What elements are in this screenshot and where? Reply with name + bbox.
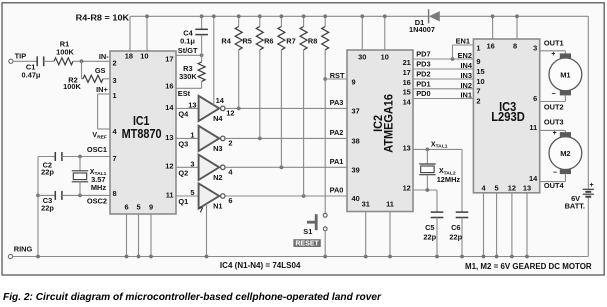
svg-text:10: 10 — [381, 52, 389, 61]
svg-text:5: 5 — [190, 188, 194, 197]
svg-text:22p: 22p — [423, 233, 436, 242]
svg-text:6: 6 — [228, 196, 232, 205]
svg-text:OSC2: OSC2 — [87, 196, 107, 205]
svg-text:IN+: IN+ — [96, 85, 108, 94]
svg-text:M2: M2 — [560, 149, 570, 158]
svg-text:PD1: PD1 — [416, 80, 430, 89]
svg-text:14: 14 — [165, 103, 174, 112]
svg-text:17: 17 — [165, 55, 173, 64]
svg-text:1: 1 — [476, 43, 480, 52]
svg-text:OUT4: OUT4 — [544, 181, 565, 190]
svg-text:39: 39 — [352, 165, 360, 174]
svg-text:14: 14 — [529, 174, 538, 183]
svg-text:C5: C5 — [425, 223, 434, 232]
svg-text:13: 13 — [165, 133, 173, 142]
svg-text:R8: R8 — [308, 37, 317, 46]
svg-text:N4: N4 — [213, 114, 223, 123]
svg-text:5: 5 — [495, 184, 499, 193]
svg-text:9: 9 — [476, 57, 480, 66]
svg-text:PD2: PD2 — [416, 70, 430, 79]
svg-text:PA1: PA1 — [330, 157, 344, 166]
svg-text:IN1: IN1 — [460, 91, 472, 100]
svg-text:18: 18 — [125, 52, 133, 61]
svg-text:14: 14 — [403, 97, 412, 106]
svg-text:2: 2 — [113, 58, 117, 67]
svg-text:+: + — [553, 130, 557, 137]
svg-text:R5: R5 — [242, 37, 251, 46]
svg-text:OUT1: OUT1 — [544, 39, 564, 48]
svg-text:RESET: RESET — [295, 239, 319, 248]
svg-text:6: 6 — [533, 94, 537, 103]
svg-text:12MHz: 12MHz — [437, 175, 461, 184]
svg-text:OUT2: OUT2 — [544, 102, 564, 111]
svg-text:0.1μ: 0.1μ — [180, 36, 195, 45]
svg-text:21: 21 — [403, 58, 411, 67]
svg-text:IC4 (N1-N4) = 74LS04: IC4 (N1-N4) = 74LS04 — [220, 261, 301, 270]
svg-text:15: 15 — [403, 88, 411, 97]
svg-text:11: 11 — [166, 190, 174, 199]
svg-text:ESt: ESt — [178, 89, 191, 98]
svg-text:R7: R7 — [286, 37, 295, 46]
svg-text:M1, M2 = 6V GEARED DC MOTOR: M1, M2 = 6V GEARED DC MOTOR — [465, 262, 592, 271]
svg-text:13: 13 — [523, 184, 531, 193]
svg-text:IN4: IN4 — [460, 61, 472, 70]
svg-text:1N4007: 1N4007 — [409, 25, 435, 34]
svg-text:100K: 100K — [63, 82, 81, 91]
svg-text:10: 10 — [140, 52, 148, 61]
svg-text:9: 9 — [352, 77, 356, 86]
svg-text:12: 12 — [165, 162, 173, 171]
svg-text:N2: N2 — [213, 173, 222, 182]
svg-text:S1: S1 — [303, 227, 312, 236]
svg-text:1: 1 — [190, 130, 194, 139]
svg-text:7: 7 — [476, 87, 480, 96]
svg-text:IN-: IN- — [99, 52, 109, 61]
svg-text:GS: GS — [95, 66, 106, 75]
svg-text:38: 38 — [352, 137, 360, 146]
svg-text:13: 13 — [403, 143, 411, 152]
svg-text:OSC1: OSC1 — [87, 145, 107, 154]
svg-text:Q1: Q1 — [178, 197, 188, 206]
svg-text:7: 7 — [199, 206, 203, 215]
svg-text:IN3: IN3 — [460, 71, 472, 80]
svg-text:R6: R6 — [264, 37, 273, 46]
svg-text:Q4: Q4 — [178, 110, 189, 119]
svg-text:8: 8 — [513, 42, 517, 51]
svg-text:IN2: IN2 — [460, 81, 472, 90]
svg-text:17: 17 — [403, 68, 411, 77]
svg-text:ATMEGA16: ATMEGA16 — [382, 94, 396, 153]
svg-text:0.47μ: 0.47μ — [22, 70, 41, 79]
svg-text:16: 16 — [403, 78, 411, 87]
svg-text:TIP: TIP — [15, 52, 27, 61]
svg-text:+: + — [590, 182, 594, 189]
svg-text:PD7: PD7 — [416, 50, 430, 59]
svg-text:16: 16 — [486, 42, 494, 51]
svg-text:2: 2 — [228, 139, 232, 148]
svg-text:8: 8 — [113, 189, 117, 198]
svg-text:5: 5 — [136, 203, 140, 212]
svg-text:C6: C6 — [451, 223, 460, 232]
svg-text:PA3: PA3 — [330, 98, 344, 107]
svg-text:−: − — [551, 91, 555, 98]
svg-text:11: 11 — [386, 199, 394, 208]
svg-text:PD0: PD0 — [416, 89, 430, 98]
svg-text:N1: N1 — [213, 202, 222, 211]
svg-text:+: + — [551, 51, 555, 58]
svg-text:11: 11 — [529, 123, 537, 132]
svg-text:R4: R4 — [221, 37, 231, 46]
svg-text:37: 37 — [352, 107, 360, 116]
svg-text:40: 40 — [352, 194, 360, 203]
svg-text:30: 30 — [358, 52, 366, 61]
svg-text:12: 12 — [226, 109, 234, 118]
svg-text:3: 3 — [190, 159, 194, 168]
svg-text:R4-R8 = 10K: R4-R8 = 10K — [76, 14, 130, 23]
svg-text:12: 12 — [403, 184, 411, 193]
svg-text:2: 2 — [476, 96, 480, 105]
svg-text:10: 10 — [476, 77, 484, 86]
svg-text:Q3: Q3 — [178, 140, 188, 149]
svg-text:L293D: L293D — [491, 109, 525, 124]
svg-text:EN1: EN1 — [456, 37, 470, 46]
svg-text:22p: 22p — [449, 233, 462, 242]
svg-text:Fig. 2: Circuit diagram of mic: Fig. 2: Circuit diagram of microcontroll… — [3, 292, 382, 303]
svg-text:31: 31 — [362, 199, 370, 208]
svg-text:100K: 100K — [56, 47, 74, 56]
svg-text:N3: N3 — [213, 144, 222, 153]
svg-text:16: 16 — [165, 82, 173, 91]
svg-text:9: 9 — [149, 203, 153, 212]
svg-text:22p: 22p — [41, 203, 54, 212]
svg-text:330K: 330K — [179, 72, 197, 81]
svg-text:BATT.: BATT. — [565, 202, 585, 211]
svg-text:RING: RING — [14, 245, 33, 254]
svg-text:Q2: Q2 — [178, 169, 188, 178]
svg-text:7: 7 — [113, 154, 117, 163]
svg-text:OUT3: OUT3 — [544, 118, 564, 127]
svg-text:RST: RST — [330, 71, 345, 80]
svg-text:13: 13 — [188, 100, 196, 109]
svg-text:15: 15 — [476, 67, 484, 76]
svg-text:1: 1 — [113, 91, 117, 100]
svg-text:M1: M1 — [560, 70, 570, 79]
svg-text:MHz: MHz — [91, 183, 106, 192]
svg-text:−: − — [553, 170, 557, 177]
svg-text:EN2: EN2 — [458, 51, 472, 60]
svg-text:12: 12 — [508, 184, 516, 193]
svg-text:St/GT: St/GT — [178, 46, 198, 55]
svg-text:14: 14 — [216, 96, 225, 105]
svg-text:PA0: PA0 — [330, 186, 344, 195]
svg-text:MT8870: MT8870 — [122, 126, 162, 141]
svg-text:6: 6 — [124, 203, 128, 212]
svg-text:PD3: PD3 — [416, 60, 430, 69]
svg-text:3: 3 — [113, 76, 117, 85]
svg-text:PA2: PA2 — [330, 128, 344, 137]
svg-text:22p: 22p — [41, 168, 54, 177]
svg-text:3: 3 — [533, 43, 537, 52]
